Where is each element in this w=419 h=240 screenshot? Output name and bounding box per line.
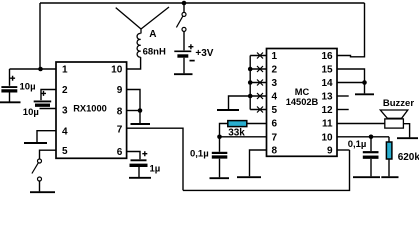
node battery branch junction	[182, 1, 187, 6]
svg-text:12: 12	[321, 105, 333, 116]
wire left rail drop to pin1 net	[39, 3, 41, 69]
wire pin14 stub	[337, 82, 365, 84]
svg-text:1: 1	[62, 65, 68, 76]
wire pin8 stub	[127, 110, 140, 112]
pin2 no-connect cross	[257, 66, 263, 72]
svg-text:A: A	[149, 29, 156, 40]
svg-text:RX1000: RX1000	[73, 103, 107, 113]
svg-text:1µ: 1µ	[150, 164, 161, 175]
svg-text:2: 2	[62, 85, 68, 96]
wire pin3 stub	[250, 82, 266, 84]
svg-text:+3V: +3V	[195, 48, 213, 59]
svg-text:9: 9	[327, 146, 333, 157]
ground pins8-9	[131, 123, 151, 125]
svg-text:8: 8	[117, 106, 123, 117]
capacitor C5 0,1u	[363, 137, 379, 177]
svg-text:15: 15	[321, 65, 333, 76]
svg-text:8: 8	[272, 146, 278, 157]
wire pin9 to pin8 junction	[127, 90, 140, 111]
node pins14-15 junction	[362, 80, 367, 85]
svg-text:4: 4	[272, 92, 278, 103]
ground buzzer	[397, 137, 418, 139]
wire R1 to pin6	[247, 123, 267, 125]
wire pin11 to buzzer	[337, 123, 385, 125]
svg-text:0,1µ: 0,1µ	[348, 139, 367, 150]
node R1/C4 junction	[217, 135, 222, 140]
capacitor C3 1u	[127, 151, 148, 177]
svg-text:9: 9	[117, 85, 123, 96]
svg-text:MC: MC	[295, 87, 310, 97]
svg-text:3: 3	[62, 106, 68, 117]
svg-text:14502B: 14502B	[286, 97, 319, 107]
capacitor C2 10u	[34, 90, 56, 109]
wire pin8 IC2 to ground	[250, 150, 267, 176]
pin4 no-connect cross	[257, 93, 263, 99]
svg-text:68nH: 68nH	[143, 47, 166, 58]
ground bus	[217, 109, 239, 111]
capacitor C4 0,1u	[212, 137, 228, 178]
svg-text:10µ: 10µ	[23, 107, 39, 118]
wire pin4 stub	[250, 95, 266, 97]
wire pin10 IC2	[337, 136, 389, 138]
svg-text:10: 10	[111, 65, 123, 76]
svg-text:11: 11	[322, 119, 333, 130]
svg-text:16: 16	[321, 51, 333, 62]
switch S1	[176, 3, 186, 31]
wire pin12 stub	[337, 109, 349, 111]
wire bus to ground	[229, 96, 251, 109]
ground R2	[381, 176, 398, 178]
svg-text:6: 6	[117, 147, 123, 158]
wire pin4 to ground	[37, 131, 56, 143]
ground pin8 IC2	[237, 176, 261, 178]
wire bottom rail	[183, 150, 350, 190]
svg-text:10: 10	[321, 132, 333, 143]
wire buzzer to ground	[403, 124, 409, 138]
battery B1	[174, 44, 194, 73]
ground C3	[129, 177, 151, 179]
svg-text:14: 14	[321, 78, 333, 89]
wire L1 to pin10	[127, 57, 141, 69]
node bus pin2	[248, 67, 253, 72]
ground pins14-15	[355, 93, 374, 95]
IC U2 MC14502B	[267, 49, 338, 157]
capacitor C1 10u	[1, 69, 17, 102]
svg-text:10µ: 10µ	[20, 81, 36, 92]
pin1 no-connect cross	[257, 53, 263, 59]
svg-text:13: 13	[321, 92, 333, 103]
svg-text:5: 5	[272, 105, 278, 116]
svg-text:0,1µ: 0,1µ	[190, 148, 209, 159]
ground C5	[353, 176, 380, 178]
pin5 no-connect cross	[257, 107, 263, 113]
wire pin7 IC2	[220, 136, 267, 138]
node C5 junction	[369, 135, 374, 140]
wire pin16 to top rail	[337, 3, 365, 57]
resistor R1 33k	[228, 121, 247, 127]
ground battery	[174, 73, 193, 75]
wire pin13 stub	[337, 95, 349, 97]
wire pin5 to switch	[40, 150, 57, 159]
antenna A	[116, 7, 169, 34]
IC U1 RX1000	[56, 62, 127, 158]
wire pin2 stub	[250, 68, 266, 70]
svg-text:1: 1	[272, 51, 278, 62]
ground pin4	[24, 142, 47, 144]
buzzer BZ1	[380, 110, 408, 128]
ground C1	[0, 101, 21, 103]
ground C4	[210, 177, 230, 179]
resistor R2 620k	[386, 137, 392, 177]
svg-text:4: 4	[62, 126, 68, 137]
svg-text:7: 7	[117, 124, 123, 135]
switch S2	[32, 159, 42, 191]
node pin1 junction	[38, 67, 43, 72]
node bus pin3	[248, 80, 253, 85]
svg-text:2: 2	[272, 65, 278, 76]
inductor L1 68nH	[137, 33, 141, 57]
wire pin5 stub	[250, 109, 266, 111]
wire switch to battery	[183, 31, 185, 50]
svg-text:5: 5	[62, 146, 68, 157]
ground S2	[30, 191, 55, 193]
svg-text:33k: 33k	[228, 128, 245, 139]
wire top supply rail	[40, 2, 365, 4]
wire NC bus pins 1-5	[249, 56, 251, 110]
svg-text:3: 3	[272, 78, 278, 89]
wire junction to R1	[220, 124, 228, 137]
svg-text:620k: 620k	[398, 152, 419, 163]
node pin8/9 junction	[138, 108, 143, 113]
wire pin7 to bottom rail	[127, 128, 183, 190]
node bus pin4	[248, 94, 253, 99]
wire pin1 stub	[250, 55, 266, 57]
svg-text:Buzzer: Buzzer	[383, 98, 414, 109]
svg-text:6: 6	[272, 119, 278, 130]
wire pin15	[337, 69, 365, 93]
wire junction to ground	[139, 111, 141, 124]
wire pin1 net	[10, 68, 57, 70]
pin3 no-connect cross	[257, 80, 263, 86]
wire pin9 to bottom rail	[337, 149, 350, 151]
svg-text:7: 7	[272, 132, 278, 143]
